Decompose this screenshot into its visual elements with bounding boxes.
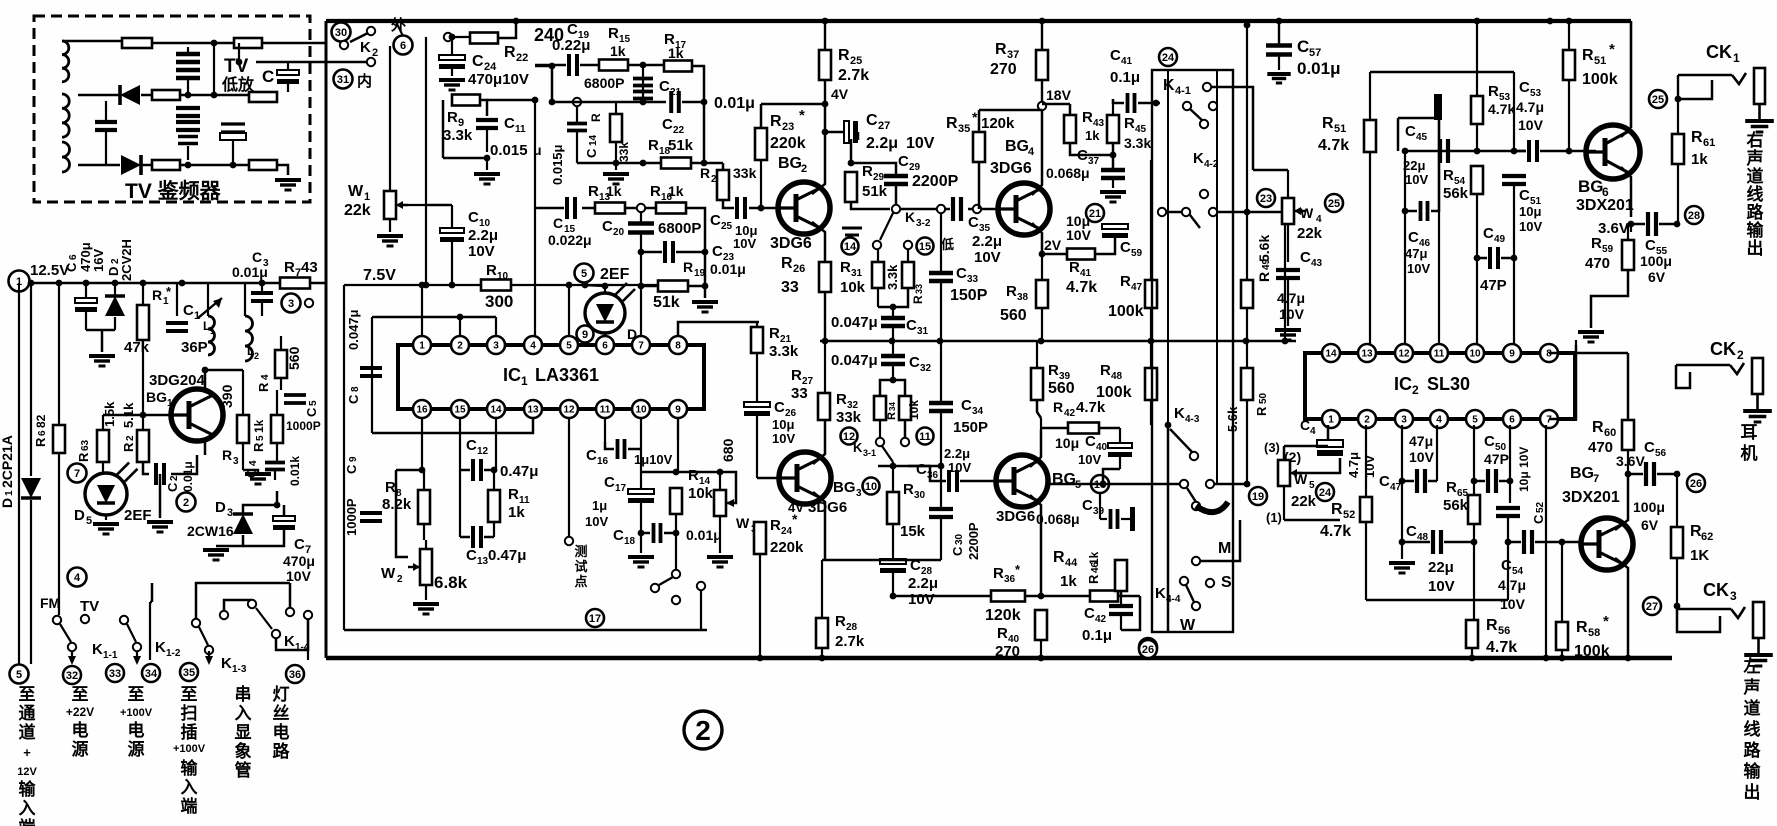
svg-text:10V: 10V: [286, 568, 312, 584]
resistor R27 33: [818, 393, 830, 420]
svg-text:线: 线: [1747, 184, 1764, 204]
svg-text:14: 14: [844, 241, 857, 253]
svg-text:C: C: [1483, 225, 1494, 242]
svg-text:R: R: [1120, 273, 1131, 290]
svg-text:3.3k: 3.3k: [885, 264, 900, 290]
svg-text:0.068μ: 0.068μ: [1046, 165, 1090, 181]
resistor R59 470: [1622, 240, 1634, 270]
svg-text:0.047μ: 0.047μ: [831, 314, 878, 331]
svg-text:560: 560: [1048, 380, 1075, 397]
svg-text:37: 37: [1088, 156, 1100, 167]
wire right verticals: [1246, 25, 1248, 212]
svg-text:17: 17: [615, 483, 627, 494]
svg-text:C: C: [662, 116, 673, 133]
wire BG6 emitter: [1621, 167, 1631, 217]
svg-text:BG: BG: [778, 155, 802, 172]
svg-text:25: 25: [1652, 94, 1664, 106]
svg-text:R: R: [152, 287, 162, 303]
svg-text:4: 4: [260, 374, 271, 380]
svg-text:5: 5: [255, 435, 266, 441]
svg-text:C: C: [1120, 239, 1131, 256]
svg-text:2.2μ: 2.2μ: [866, 135, 898, 152]
svg-text:R: R: [840, 259, 851, 276]
svg-text:11: 11: [515, 124, 526, 135]
wire arrows down: [71, 651, 73, 661]
svg-text:1k: 1k: [1060, 573, 1077, 590]
svg-text:线: 线: [1744, 719, 1761, 739]
svg-text:4.7μ: 4.7μ: [1498, 577, 1526, 593]
svg-text:+100V: +100V: [120, 707, 153, 719]
svg-text:3: 3: [233, 456, 239, 467]
svg-text:R: R: [997, 625, 1008, 642]
svg-text:37: 37: [1007, 49, 1019, 61]
wire BG7 emitter: [1615, 558, 1628, 658]
wire top nodes: [1474, 18, 1481, 25]
svg-text:33: 33: [109, 668, 121, 680]
wire bottom border: [326, 656, 1672, 661]
circled 35: [180, 663, 198, 681]
wire pin4 up: [534, 336, 536, 345]
potentiometer W5 22k: [1278, 460, 1290, 486]
svg-text:2: 2: [1412, 383, 1419, 397]
svg-text:19: 19: [1252, 491, 1264, 503]
svg-text:K: K: [1174, 405, 1185, 422]
svg-text:机: 机: [1741, 443, 1758, 463]
svg-text:33: 33: [791, 385, 808, 402]
resistor 33k vertical mid: [610, 114, 622, 142]
capacitor C54 4.7u10V: [1522, 530, 1526, 554]
svg-text:41: 41: [1080, 268, 1092, 279]
svg-text:10μ: 10μ: [772, 417, 794, 432]
svg-text:33k: 33k: [836, 409, 862, 426]
capacitor C33 150P: [929, 271, 953, 275]
resistor R14 10k: [670, 488, 682, 514]
svg-text:R: R: [862, 163, 873, 180]
svg-text:R: R: [504, 44, 516, 61]
wire R9 loop bottom: [443, 157, 487, 160]
svg-text:5: 5: [581, 268, 587, 280]
node: [211, 40, 218, 47]
wire H9 y72: [1370, 71, 1514, 74]
svg-text:4: 4: [1316, 214, 1322, 225]
resistor R10 300: [481, 280, 511, 291]
svg-text:2: 2: [695, 715, 711, 746]
svg-text:26: 26: [1690, 478, 1702, 490]
svg-text:11: 11: [600, 405, 611, 416]
svg-text:28: 28: [1688, 210, 1700, 222]
svg-text:10: 10: [865, 481, 877, 493]
svg-text:59: 59: [1131, 248, 1143, 259]
svg-text:34: 34: [888, 402, 897, 411]
svg-text:36: 36: [289, 669, 301, 681]
wire upper loop y317: [372, 316, 496, 319]
svg-text:56: 56: [1655, 448, 1667, 459]
coil L-a: [62, 41, 69, 82]
svg-text:入: 入: [19, 799, 36, 818]
circled 23: [1257, 189, 1275, 207]
wire BG6 base rail: [1405, 150, 1526, 153]
coil L-b: [62, 94, 69, 137]
svg-text:至: 至: [181, 685, 198, 704]
circled 30: [332, 23, 351, 42]
IC2 pins bottom: [1322, 410, 1340, 428]
svg-text:270: 270: [990, 61, 1017, 78]
svg-text:6: 6: [400, 40, 406, 52]
svg-text:26: 26: [793, 263, 805, 275]
wire BG3 base: [757, 477, 779, 480]
svg-text:63: 63: [80, 439, 91, 451]
svg-text:2.7k: 2.7k: [835, 633, 865, 650]
wire: [277, 165, 288, 175]
resistor R22 240: [444, 33, 452, 41]
IC2 pins top: [1322, 344, 1340, 362]
wire BG3 emitter to R36 line: [893, 595, 960, 598]
svg-text:BG: BG: [1052, 471, 1076, 488]
svg-text:15k: 15k: [900, 523, 926, 540]
wire vertical joins: [187, 146, 189, 160]
wire: [78, 164, 120, 167]
svg-text:R: R: [1086, 574, 1101, 584]
svg-text:10V: 10V: [906, 135, 935, 152]
svg-text:W: W: [381, 565, 396, 582]
svg-text:13: 13: [527, 405, 539, 416]
svg-text:通: 通: [19, 704, 36, 723]
ground W3: [719, 516, 721, 553]
circled 25 right: [1649, 90, 1667, 108]
svg-text:至: 至: [19, 685, 36, 704]
svg-text:0.068μ: 0.068μ: [1036, 511, 1080, 527]
svg-text:3.3k: 3.3k: [443, 127, 473, 144]
svg-text:2: 2: [254, 351, 259, 361]
svg-text:3DG6: 3DG6: [770, 235, 812, 252]
svg-text:16: 16: [597, 456, 609, 467]
resistor R31 10k: [872, 262, 884, 288]
resistor R37 270: [1036, 50, 1048, 80]
svg-text:C: C: [1501, 557, 1512, 574]
circled 34: [142, 664, 160, 682]
svg-text:10V: 10V: [1405, 172, 1428, 187]
svg-text:2CW16: 2CW16: [187, 523, 234, 539]
svg-text:左: 左: [1744, 656, 1761, 676]
resistor R58* 100k: [1556, 622, 1568, 650]
ground C6/D2: [89, 354, 115, 358]
svg-text:10V: 10V: [1407, 261, 1430, 276]
svg-text:47μ: 47μ: [1405, 246, 1427, 261]
svg-text:470μ: 470μ: [283, 553, 315, 569]
svg-text:低: 低: [940, 237, 954, 252]
svg-text:47: 47: [1131, 282, 1143, 293]
svg-text:3: 3: [1401, 415, 1407, 426]
svg-text:K: K: [360, 39, 371, 56]
big circled 2: [684, 711, 722, 749]
svg-text:1k: 1k: [668, 183, 684, 199]
svg-text:R: R: [911, 295, 925, 304]
svg-text:R: R: [1100, 362, 1111, 379]
svg-text:2.7k: 2.7k: [838, 67, 869, 84]
svg-text:R: R: [1582, 47, 1594, 64]
svg-text:道: 道: [1744, 698, 1761, 718]
svg-text:灯: 灯: [273, 685, 290, 704]
svg-text:24: 24: [781, 526, 793, 537]
wire pin3 column: [1401, 425, 1403, 542]
svg-text:串: 串: [235, 684, 252, 704]
svg-text:100μ: 100μ: [1633, 499, 1665, 515]
svg-text:C: C: [712, 243, 723, 260]
resistor R39 560: [1031, 368, 1043, 400]
svg-text:扫: 扫: [181, 703, 198, 723]
svg-text:10V: 10V: [1518, 117, 1544, 133]
svg-text:1: 1: [1328, 415, 1334, 426]
svg-text:R: R: [700, 165, 710, 181]
svg-text:12: 12: [843, 431, 855, 443]
svg-text:34: 34: [972, 406, 984, 417]
svg-text:30: 30: [954, 533, 965, 545]
svg-text:58: 58: [1588, 627, 1600, 639]
svg-text:2.2μ: 2.2μ: [944, 446, 970, 461]
svg-text:IC: IC: [1394, 374, 1412, 394]
svg-text:W: W: [1180, 617, 1196, 634]
wire: [142, 283, 144, 305]
wire BG2 base: [760, 160, 762, 208]
svg-text:出: 出: [1747, 238, 1764, 258]
svg-text:C: C: [1077, 147, 1088, 164]
svg-text:低放: 低放: [221, 75, 255, 94]
resistor R63 1.5k vertical: [97, 430, 109, 462]
svg-text:(3): (3): [1264, 440, 1280, 455]
svg-text:680: 680: [720, 438, 736, 462]
svg-text:1k: 1k: [606, 183, 622, 199]
svg-text:R: R: [1576, 619, 1588, 636]
svg-text:道: 道: [19, 722, 36, 742]
svg-text:16: 16: [416, 405, 428, 416]
svg-text:10V: 10V: [1362, 455, 1377, 478]
switch K1-3: [192, 619, 200, 627]
svg-text:22k: 22k: [1297, 225, 1323, 242]
capacitor C25 10u10V: [735, 197, 739, 219]
circled 2: [177, 493, 196, 512]
svg-text:0.01μ: 0.01μ: [232, 264, 268, 280]
circled 32: [63, 666, 81, 684]
svg-text:22k: 22k: [1291, 493, 1317, 510]
wire K4 bottom: [1167, 440, 1170, 632]
svg-text:5.6k: 5.6k: [1225, 406, 1240, 432]
svg-text:4-1: 4-1: [1175, 85, 1191, 97]
svg-text:11: 11: [919, 431, 931, 443]
svg-text:1μ10V: 1μ10V: [634, 452, 673, 467]
svg-text:C: C: [1110, 47, 1121, 64]
resistor R61 1k: [1672, 134, 1684, 164]
svg-text:D: D: [215, 499, 226, 516]
svg-text:21: 21: [1089, 208, 1101, 220]
svg-text:2.2μ: 2.2μ: [468, 227, 498, 244]
svg-text:3-1: 3-1: [863, 448, 876, 458]
svg-text:C: C: [659, 78, 670, 95]
capacitor C10 2.2u: [440, 228, 464, 233]
resistor R52 4.7k: [1360, 497, 1372, 522]
coil L-c: [62, 142, 70, 172]
svg-text:12: 12: [477, 446, 489, 457]
svg-text:36P: 36P: [181, 339, 208, 356]
wire BG5 collector: [1030, 430, 1041, 467]
svg-text:3.6V: 3.6V: [1598, 220, 1629, 237]
wire pin2 up: [459, 317, 461, 336]
capacitor C7 470u: [273, 516, 295, 521]
svg-text:270: 270: [995, 643, 1020, 660]
svg-text:C: C: [1300, 249, 1311, 266]
svg-text:C: C: [898, 153, 909, 170]
svg-text:BG: BG: [146, 389, 167, 405]
svg-text:R: R: [33, 437, 48, 447]
svg-text:R: R: [1082, 109, 1093, 126]
svg-text:路: 路: [1747, 202, 1765, 222]
wire CK1 inner contact: [1678, 80, 1712, 99]
wire BG1 collector: [205, 370, 243, 391]
svg-text:IC: IC: [503, 365, 521, 385]
circled 26 right: [1687, 474, 1705, 492]
svg-text:R: R: [1488, 83, 1499, 100]
svg-text:6: 6: [1509, 415, 1515, 426]
wire R23 top: [760, 104, 763, 128]
svg-text:25: 25: [850, 55, 862, 67]
svg-text:470: 470: [1588, 439, 1613, 456]
wire K3-1 common down: [892, 462, 894, 466]
svg-text:35: 35: [183, 667, 195, 679]
svg-text:10k: 10k: [907, 400, 921, 420]
svg-text:LA3361: LA3361: [535, 365, 599, 385]
resistor R25 2.7k: [819, 50, 831, 80]
svg-text:C: C: [710, 212, 721, 229]
svg-text:2200P: 2200P: [966, 522, 981, 560]
svg-text:1000P: 1000P: [286, 419, 321, 433]
svg-text:3: 3: [288, 298, 294, 310]
LED D4 2EF: [575, 264, 594, 283]
capacitor C51 10u10V: [1502, 174, 1526, 178]
diode tuner D-b: [121, 155, 141, 175]
ground R19: [692, 300, 718, 304]
svg-text:150P: 150P: [953, 419, 988, 436]
wire tuner-top: [62, 40, 122, 43]
svg-text:4V: 4V: [831, 86, 849, 102]
svg-text:W: W: [348, 183, 364, 200]
svg-text:44: 44: [1065, 557, 1078, 569]
svg-text:0.01μ: 0.01μ: [686, 527, 722, 543]
svg-text:22: 22: [673, 125, 685, 136]
resistor R21 3.3k: [751, 327, 763, 353]
svg-text:47P: 47P: [1480, 277, 1507, 294]
svg-text:18V: 18V: [1046, 87, 1072, 103]
wire C19 left junction x552: [551, 66, 554, 102]
svg-text:FM: FM: [40, 595, 60, 611]
capacitor C46 47u10V: [1419, 201, 1423, 221]
resistor R34 10k vertical: [899, 396, 911, 420]
svg-text:10μ 10V: 10μ 10V: [1517, 447, 1531, 492]
svg-text:10V: 10V: [733, 236, 756, 251]
resistor R51 4.7k: [1364, 120, 1376, 152]
capacitor C20 6800P: [628, 221, 654, 226]
svg-text:13: 13: [1361, 349, 1373, 360]
switch K1-1: [53, 616, 61, 624]
transistor BG5: [996, 455, 1048, 507]
wire 0.01u column: [701, 160, 708, 167]
svg-text:C: C: [504, 115, 515, 132]
svg-text:输: 输: [1744, 761, 1762, 781]
wire pin12 down to test point: [568, 418, 570, 536]
ground BG6 emitter: [1578, 330, 1604, 334]
svg-text:19: 19: [694, 268, 706, 279]
svg-text:R: R: [836, 391, 847, 408]
svg-text:47P: 47P: [1484, 451, 1509, 467]
switch K2: [367, 27, 375, 35]
svg-text:点: 点: [574, 574, 587, 589]
svg-text:测: 测: [574, 544, 587, 559]
svg-text:4.7k: 4.7k: [1488, 101, 1515, 117]
svg-text:C: C: [950, 546, 965, 556]
svg-text:51: 51: [1334, 123, 1346, 135]
svg-text:TV 鉴频器: TV 鉴频器: [125, 179, 222, 203]
svg-text:声: 声: [1743, 677, 1761, 697]
potentiometer W4 22k: [1282, 198, 1294, 224]
wire loop under IC y433: [372, 418, 533, 433]
svg-text:33: 33: [967, 274, 979, 285]
wire pin14 down: [495, 418, 497, 470]
svg-text:R: R: [222, 447, 232, 463]
switch K3-1: [876, 438, 884, 446]
svg-text:6V: 6V: [1648, 269, 1666, 285]
svg-text:1μ: 1μ: [592, 498, 607, 513]
wire: [78, 94, 119, 97]
svg-text:13: 13: [477, 556, 489, 567]
wire BG5 base: [995, 480, 998, 483]
svg-text:22μ: 22μ: [1428, 559, 1454, 576]
svg-text:220k: 220k: [770, 135, 806, 152]
svg-text:5: 5: [1309, 480, 1315, 491]
svg-text:23: 23: [1260, 193, 1272, 205]
capacitor C37 0.068u: [1101, 168, 1125, 172]
circled 21: [1086, 204, 1104, 222]
svg-text:10μ: 10μ: [1519, 204, 1541, 219]
svg-text:C: C: [906, 317, 917, 334]
wire base bus y209: [892, 205, 900, 213]
svg-text:C: C: [916, 461, 927, 478]
svg-text:R: R: [946, 115, 958, 132]
svg-text:54: 54: [1512, 566, 1524, 577]
ground C18 column: [640, 533, 642, 553]
circled 19: [1249, 487, 1267, 505]
svg-text:56: 56: [1498, 625, 1510, 637]
svg-text:0.01μ: 0.01μ: [181, 461, 195, 492]
ground C14 33k: [577, 162, 643, 165]
circled 36: [286, 665, 304, 683]
svg-text:R: R: [683, 259, 693, 275]
resistor R38 560: [1036, 280, 1048, 308]
wire pin15 down: [459, 418, 461, 537]
svg-text:9: 9: [348, 456, 359, 462]
wire: [180, 164, 249, 167]
svg-text:2200P: 2200P: [912, 173, 959, 190]
wire BG1 base: [143, 414, 171, 416]
svg-text:1k: 1k: [1691, 151, 1708, 168]
svg-text:10V: 10V: [1066, 227, 1092, 243]
svg-text:R: R: [791, 367, 802, 384]
svg-text:2CP21A: 2CP21A: [0, 435, 15, 488]
capacitor C11 0.015: [476, 118, 498, 122]
wire R17 right to 0.01u cap: [692, 66, 704, 100]
wire: [187, 47, 189, 52]
capacitor C15 0.022u: [565, 197, 569, 219]
svg-text:R: R: [256, 382, 271, 392]
wire W5 wiring: [1283, 446, 1286, 460]
wire left drop x426: [425, 37, 427, 285]
